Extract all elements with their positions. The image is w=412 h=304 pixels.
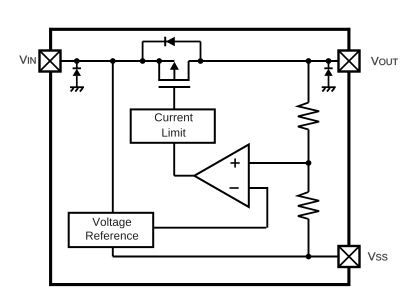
pad VIN <box>40 51 61 72</box>
node: reference supply tap <box>110 58 116 64</box>
wire: body diode loop <box>143 42 201 62</box>
text: Voltage <box>92 217 131 228</box>
diode D3: VOUT ESD clamp <box>324 61 332 87</box>
IC boundary box <box>49 28 350 286</box>
node: divider top tap <box>306 58 312 64</box>
node: body-diode cathode tap <box>198 58 204 64</box>
diode D2: body diode <box>165 37 175 47</box>
label VIN <box>19 56 35 64</box>
pad VOUT <box>339 51 360 72</box>
wire: non-inverting input from divider <box>249 162 309 164</box>
ground: VIN clamp chassis ground <box>70 87 84 91</box>
node: R2 to VSS rail <box>306 254 312 260</box>
wire: op-amp output to gate <box>174 143 195 176</box>
text: Current <box>155 113 193 121</box>
wire: VSS rail <box>113 247 339 256</box>
wire: reference supply from VIN rail <box>112 61 114 213</box>
wire: divider middle <box>308 130 310 193</box>
block: Current Limit <box>131 109 215 142</box>
transistor Q1: PMOS pass element <box>158 61 190 87</box>
resistor R2: lower feedback resistor <box>298 192 319 219</box>
wire: VIN rail (pad to transistor source) <box>61 60 175 62</box>
text: Reference <box>86 231 138 240</box>
node: feedback tap <box>306 160 312 166</box>
node: VIN clamp tap <box>74 58 80 64</box>
wire: gate lead to current limit <box>173 87 175 109</box>
wire: VOUT rail (transistor drain to pad) <box>189 60 339 62</box>
pad VSS <box>339 246 360 267</box>
ground: VOUT clamp chassis ground <box>322 87 336 91</box>
label VOUT <box>371 57 398 65</box>
text: Limit <box>162 128 185 137</box>
wire: divider bottom lead <box>308 219 310 257</box>
node: transistor source <box>156 58 162 64</box>
node: body-diode anode tap <box>140 58 146 64</box>
resistor R1: upper feedback resistor <box>298 103 319 130</box>
op-amp U1: error amplifier <box>194 145 249 208</box>
block: Voltage Reference <box>69 213 154 247</box>
diode D1: VIN ESD clamp <box>73 61 81 87</box>
node: VOUT clamp tap <box>326 58 332 64</box>
label VSS <box>368 252 388 260</box>
wire: inverting input from reference <box>153 187 267 228</box>
wire: divider top lead <box>308 61 310 103</box>
